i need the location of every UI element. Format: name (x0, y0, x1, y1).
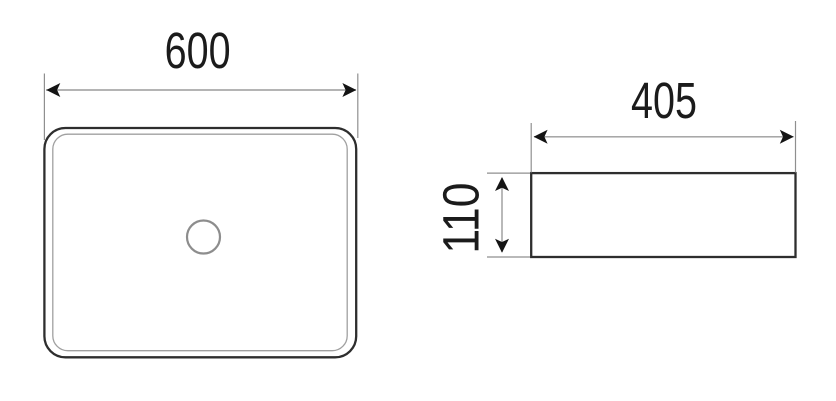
arrowhead left of 600 dimension (46, 83, 60, 97)
svg-text:110: 110 (434, 183, 490, 254)
extension line left of 405 dimension (530, 123, 532, 173)
extension line bottom of 110 dimension (487, 256, 530, 258)
dimension line 405 (534, 136, 794, 138)
extension line right of 600 dimension (357, 74, 359, 139)
svg-text:600: 600 (165, 22, 231, 79)
svg-text:405: 405 (631, 72, 697, 129)
basin side view outline (531, 173, 795, 257)
dimension line 600 (46, 89, 356, 91)
basin top view outer outline (44, 128, 356, 357)
arrowhead left of 405 dimension (534, 130, 548, 144)
basin top view inner rim (53, 134, 347, 351)
extension line left of 600 dimension (43, 74, 45, 141)
drain hole (187, 221, 220, 254)
arrowhead right of 405 dimension (780, 130, 794, 144)
arrowhead right of 600 dimension (342, 83, 356, 97)
arrowhead bottom of 110 dimension (495, 239, 509, 253)
extension line right of 405 dimension (795, 121, 797, 173)
extension line top of 110 dimension (487, 172, 530, 174)
dimension line 110 (501, 178, 503, 252)
arrowhead top of 110 dimension (495, 177, 509, 191)
